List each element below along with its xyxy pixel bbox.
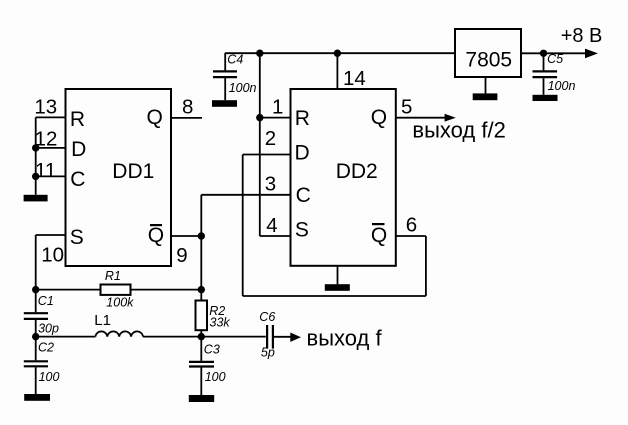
wire 7805 output to +8V [521,52,586,54]
node C junction (L1/R2/C3/C6) [198,333,205,340]
svg-text:C4: C4 [227,52,243,66]
resistor R2 [196,301,208,331]
svg-text:C: C [296,184,311,207]
wire node A to R1 [36,289,101,291]
IC DD2 [291,89,396,266]
feedback wire D to Qbar: left vertical [242,155,244,297]
wire C6 to output f arrow [274,336,291,338]
svg-text:14: 14 [343,67,366,90]
node junction C5 [540,50,547,57]
capacitor C3 [189,361,214,363]
wire DD2 pin S (4) [260,235,291,237]
svg-text:Q: Q [371,224,387,247]
svg-text:+8 В: +8 В [561,25,603,47]
wire DD2 pin Qbar (6) [396,235,426,237]
svg-text:8: 8 [182,96,193,119]
svg-text:C5: C5 [547,52,563,66]
svg-text:5p: 5p [261,345,275,359]
arrow output f/2 [445,114,456,122]
feedback wire bottom horizontal [243,295,426,297]
svg-text:R: R [295,107,310,130]
ground 7805 [473,93,498,100]
svg-text:C2: C2 [38,341,54,355]
ground C4 [212,100,237,107]
wire DD1 pin S (10) [36,234,66,236]
7805 ground stub [485,77,487,93]
ground DD2 [325,284,350,291]
svg-text:Q: Q [371,106,387,129]
wire R2 to node C [200,330,202,361]
svg-text:2: 2 [265,127,276,150]
inductor L1 [95,331,143,336]
wire DD2 pin R (1) [260,117,291,119]
svg-text:R1: R1 [105,269,121,283]
svg-text:DD2: DD2 [336,160,378,183]
ground C3 [189,395,214,402]
node junction rail / DD2 R-S tie [256,50,263,57]
svg-text:100: 100 [39,370,60,384]
node junction C [32,173,39,180]
svg-text:4: 4 [266,214,277,237]
arrow output f [290,333,301,342]
wire rail down to R and S pins [259,53,261,236]
svg-text:3: 3 [265,173,276,196]
wire DD2 pin Q (5) to output arrow [396,117,446,119]
svg-text:D: D [71,138,86,161]
svg-text:DD1: DD1 [112,160,154,183]
wire DD2 pin C (3) [201,194,290,196]
ground C5 [533,95,558,101]
capacitor C6 [266,325,268,349]
capacitor C1 [35,290,37,313]
svg-text:Q: Q [147,106,163,129]
svg-text:100n: 100n [548,79,576,93]
svg-text:C3: C3 [204,343,220,357]
resistor R1 [101,285,131,295]
svg-text:R: R [70,108,85,131]
svg-text:Q: Q [148,224,164,247]
wire node C to C6 [201,336,265,338]
svg-text:L1: L1 [94,312,111,329]
node junction R pin [256,114,263,121]
svg-text:C1: C1 [38,294,54,308]
wire DD1 pin R (13) [36,116,66,118]
capacitor C4 [224,53,226,70]
node junction rail / pin 14 [334,50,341,57]
power rail [225,52,455,54]
wire S down to node A [35,235,37,290]
svg-text:9: 9 [176,244,187,267]
wire vertical tie R-D-C to ground [35,117,37,194]
capacitor C2 [35,337,37,361]
voltage regulator U1 7805 [455,29,521,77]
svg-text:13: 13 [34,96,57,119]
feedback wire right vertical [425,236,427,296]
wire DD2 pin D (2) [243,154,291,156]
wire DD1 pin Qbar (9) [171,235,201,237]
node junction D [32,144,39,151]
svg-text:100: 100 [205,370,226,384]
node junction Qbar DD1 [198,232,205,239]
DD2 ground stub [337,266,339,285]
svg-text:30p: 30p [38,321,59,335]
capacitor C5 [543,53,545,70]
node junction C1/C2/L1 [32,333,39,340]
svg-text:D: D [295,142,310,165]
wire L1 to node C [143,336,201,338]
svg-text:C: C [70,168,85,191]
svg-text:C6: C6 [259,310,275,324]
svg-text:100n: 100n [229,81,257,95]
svg-text:1: 1 [272,95,283,118]
IC DD1 [66,89,172,266]
arrow +8V [585,49,598,59]
wire pin 14 [336,53,338,89]
wire DD1 pin Q (8) [171,117,202,119]
svg-text:7805: 7805 [465,49,512,72]
svg-text:6: 6 [406,214,417,237]
node B junction (R1) [198,286,205,293]
wire R1 to node B [131,289,202,291]
svg-text:33k: 33k [210,316,231,330]
svg-text:выход f/2: выход f/2 [412,118,505,143]
wire DD1 pin D (12) [36,147,66,149]
node A junction (S / R1 / C1) [32,286,39,293]
ground C2 [24,394,50,401]
svg-text:5: 5 [401,95,412,118]
node column: wire from DD2 C down [200,195,202,301]
wire L1 row left [36,336,96,338]
svg-text:100k: 100k [106,295,134,309]
wire DD1 pin C (11) [36,175,66,177]
svg-text:S: S [70,226,84,249]
svg-text:S: S [295,218,309,241]
svg-text:выход f: выход f [307,326,383,351]
ground DD1 inputs [24,195,48,202]
svg-text:10: 10 [41,243,64,266]
